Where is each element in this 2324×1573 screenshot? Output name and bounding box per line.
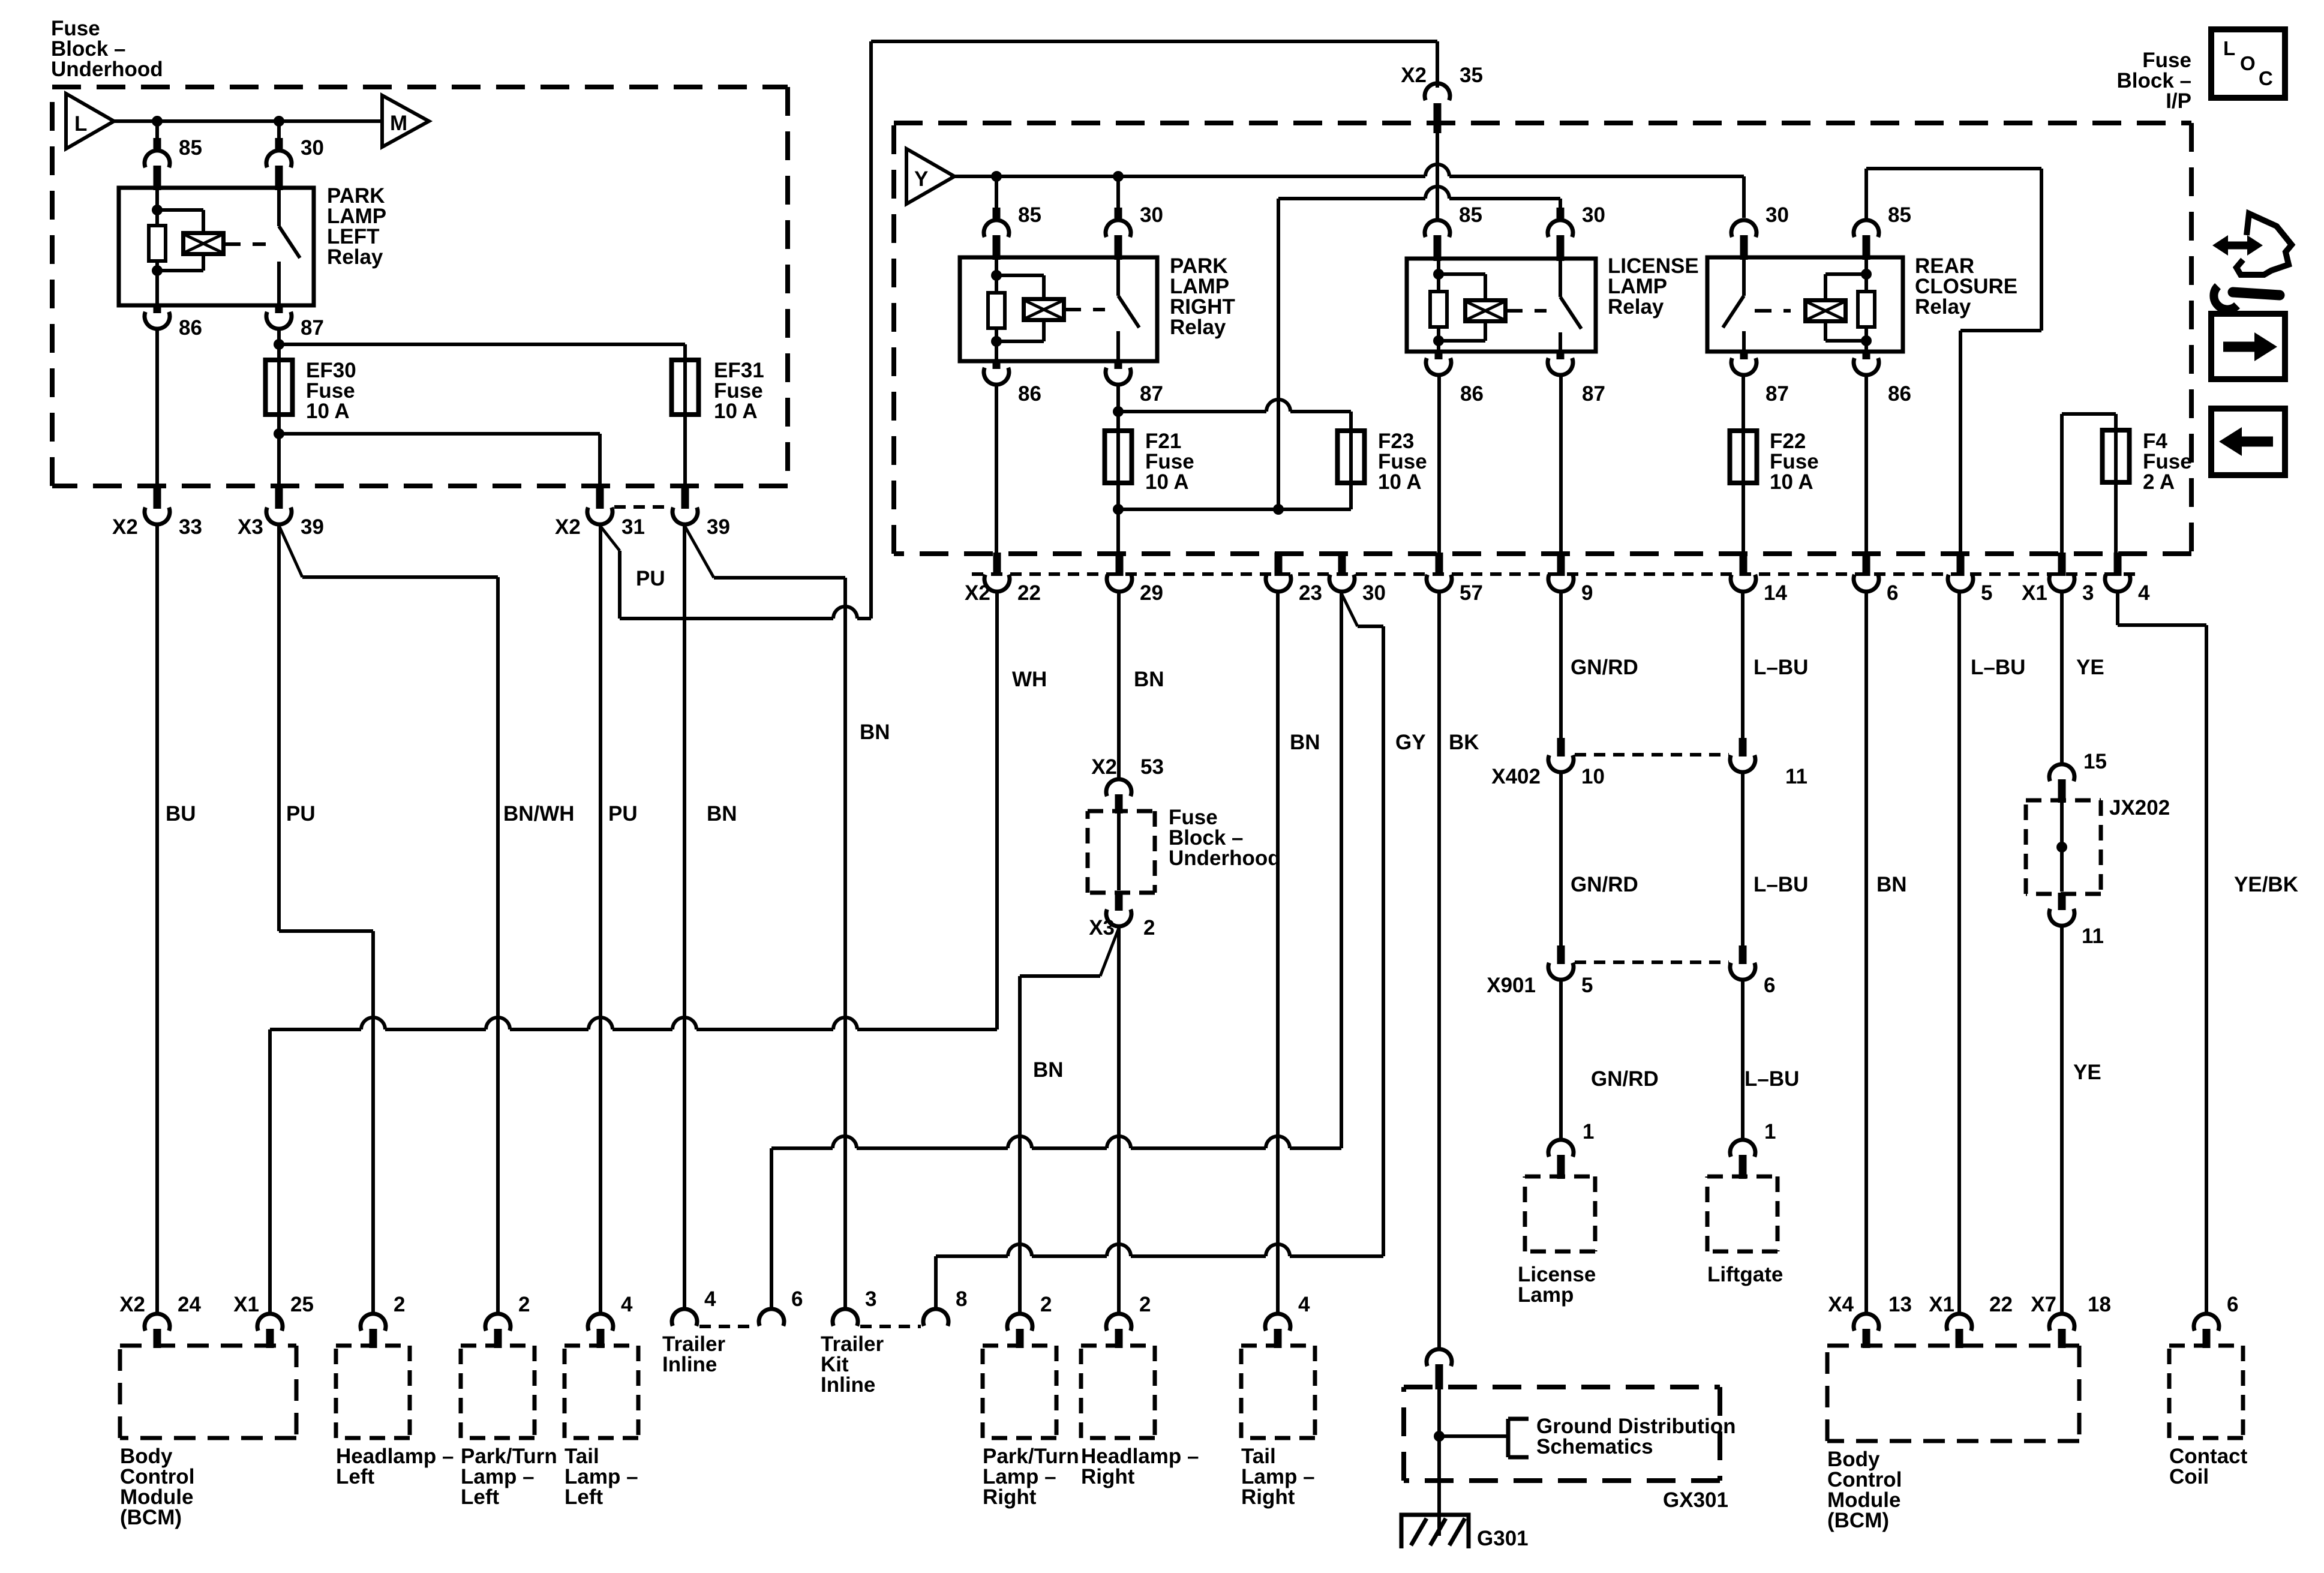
svg-text:YE: YE [2076, 656, 2104, 679]
coil (park lamp right relay) [1024, 299, 1064, 320]
wire inside ground box [1434, 1389, 1445, 1478]
pin 30 connector (park lamp right) [1106, 208, 1131, 260]
pin 30 connector (rear closure) [1731, 203, 1789, 260]
pin 85 connector (rear closure) [1854, 203, 1911, 260]
Y bus wire [950, 164, 1744, 182]
junction block JX202 box [2026, 800, 2101, 894]
label PU 2 [608, 802, 638, 825]
pin 86 connector (license) [1426, 350, 1484, 406]
connector 11 (JX202) [2049, 893, 2104, 948]
svg-text:Right: Right [983, 1485, 1037, 1509]
svg-text:18: 18 [2088, 1293, 2111, 1316]
wire BN branch 39 to trailer kit 3 [684, 526, 845, 1309]
wire L-BU 14 down [1741, 592, 1744, 738]
trailer kit inline label [821, 1332, 884, 1397]
park lamp right relay box [960, 257, 1157, 361]
pin 30 label right [1140, 203, 1163, 227]
X901 dashed link [1575, 960, 1729, 964]
svg-text:Relay: Relay [1608, 295, 1664, 319]
headlamp right label [1081, 1445, 1199, 1488]
wire BK 57 down to ground [1437, 592, 1441, 1349]
svg-text:X7: X7 [2031, 1293, 2056, 1316]
svg-text:BN: BN [1033, 1058, 1064, 1082]
svg-text:86: 86 [1018, 382, 1041, 406]
connector X402-11 [1730, 738, 1807, 788]
off-page connector triangle L [66, 94, 114, 149]
connector X2-33 [112, 485, 202, 539]
label BN 29 [1134, 668, 1164, 691]
svg-text:Schematics: Schematics [1536, 1435, 1653, 1458]
svg-text:24: 24 [178, 1293, 201, 1316]
svg-text:GN/RD: GN/RD [1571, 873, 1638, 896]
wire pin86 to X2-33 [155, 329, 159, 487]
wire BN 29 down [1117, 592, 1121, 779]
svg-text:6: 6 [791, 1287, 803, 1311]
connector X2-31 [555, 485, 645, 539]
svg-text:Inline: Inline [821, 1373, 875, 1397]
park lamp left relay box [119, 188, 314, 305]
connector X901-6 [1730, 945, 1775, 997]
relay coil feed wire + nodes (park lamp left) [152, 188, 203, 305]
svg-text:X2: X2 [1401, 64, 1427, 87]
pin 30 label [301, 136, 324, 160]
relay name PARK LAMP LEFT [327, 184, 386, 269]
wire F23 riser to bus B [1277, 199, 1280, 509]
wire 85 right drop [995, 176, 998, 213]
svg-text:I/P: I/P [2166, 89, 2191, 113]
svg-text:BN: BN [1290, 731, 1320, 754]
connector 4 (I/P row) [2105, 553, 2150, 605]
svg-text:G301: G301 [1477, 1527, 1529, 1550]
pin 86 connector (park lamp right) [984, 360, 1041, 406]
wire X2-35 into block [1436, 133, 1439, 219]
wire F21 bottom bus [1113, 483, 1351, 555]
svg-text:35: 35 [1460, 64, 1483, 87]
connector 15 (JX202) [2049, 750, 2107, 803]
svg-text:GX301: GX301 [1663, 1488, 1728, 1512]
relay name LICENSE LAMP [1608, 254, 1699, 319]
svg-text:C: C [2259, 67, 2273, 89]
svg-text:2: 2 [518, 1293, 530, 1316]
svg-text:1: 1 [1583, 1120, 1594, 1143]
fuse F4 label [2143, 430, 2192, 494]
svg-text:87: 87 [1582, 382, 1605, 406]
headlamp left label [336, 1445, 454, 1488]
label PU [286, 802, 316, 825]
svg-text:Underhood: Underhood [1169, 846, 1281, 870]
wire pin87 to EF30 [274, 329, 284, 360]
pin 87 connector (rear closure) [1731, 350, 1789, 406]
svg-text:JX202: JX202 [2109, 796, 2170, 819]
svg-text:30: 30 [1362, 581, 1386, 605]
rear closure relay box [1707, 257, 1903, 352]
label L-BU upper [1753, 656, 1808, 679]
svg-text:22: 22 [1989, 1293, 2013, 1316]
svg-text:YE: YE [2073, 1061, 2101, 1084]
resistor (rear closure relay) [1858, 292, 1875, 327]
svg-text:Right: Right [1081, 1465, 1135, 1488]
wire 87-node to EF31 [279, 344, 685, 360]
svg-text:85: 85 [1888, 203, 1911, 227]
legend box arrow right [2211, 314, 2285, 379]
svg-text:39: 39 [707, 515, 730, 539]
wire L to M bus [114, 119, 382, 123]
svg-text:BN: BN [1876, 873, 1907, 896]
pin 85 label right [1018, 203, 1041, 227]
service icon double arrow [2212, 235, 2263, 256]
relay coil feed (rear closure) [1825, 257, 1872, 352]
svg-text:Underhood: Underhood [51, 58, 163, 81]
svg-text:4: 4 [1298, 1293, 1310, 1316]
svg-text:22: 22 [1017, 581, 1041, 605]
svg-text:GN/RD: GN/RD [1571, 656, 1638, 679]
svg-text:Left: Left [565, 1485, 603, 1509]
connector X402-10 [1491, 738, 1605, 788]
wire Y bus to rear closure 30 [1742, 176, 1746, 218]
svg-text:15: 15 [2083, 750, 2107, 773]
relay coil feed (license) [1433, 259, 1485, 352]
switch (park lamp right relay) [1118, 257, 1139, 361]
switch (park lamp left relay) [279, 188, 300, 305]
connector 2 (headlamp left) [361, 1293, 405, 1348]
coil-switch dashed link (park lamp left) [224, 242, 266, 246]
wire rear 87 to F22 [1742, 376, 1745, 431]
svg-text:2: 2 [1040, 1293, 1052, 1316]
svg-text:Liftgate: Liftgate [1707, 1263, 1783, 1286]
coil-switch dashed link (license) [1506, 309, 1547, 313]
label BN trailer kit [860, 721, 890, 744]
wire X3-2 branch to park/turn right [1020, 928, 1119, 1313]
svg-text:BN/WH: BN/WH [503, 802, 575, 825]
svg-text:3: 3 [865, 1287, 876, 1311]
connector 9 (I/P row) [1548, 553, 1593, 605]
svg-text:X901: X901 [1487, 974, 1536, 997]
pin 87 connector (license) [1548, 350, 1605, 406]
svg-text:PU: PU [286, 802, 316, 825]
pin 86 connector (rear closure) [1854, 350, 1911, 406]
svg-text:3: 3 [2082, 581, 2094, 605]
connector X1-22 (BCM right) [1929, 1293, 2013, 1348]
svg-text:X2: X2 [112, 515, 138, 539]
label GN/RD upper [1571, 656, 1638, 679]
fuse block - I/P label [2117, 49, 2192, 113]
wire GN/RD 9 down [1559, 592, 1563, 738]
legend box arrow left [2211, 409, 2285, 475]
connector 3 (trailer kit) [833, 1287, 876, 1326]
wire 87 right to F21 [1113, 385, 1124, 431]
trailer inline dashed link [699, 1325, 757, 1328]
connector X1-3 (I/P row) [2022, 553, 2094, 605]
contact coil box [2169, 1346, 2243, 1438]
wire PU branch X2-31 to X2-35 feed [600, 41, 1437, 619]
svg-text:X1: X1 [1929, 1293, 1954, 1316]
label BN trailer [707, 802, 737, 825]
liftgate box [1707, 1176, 1777, 1251]
park/turn lamp left label [461, 1445, 557, 1509]
svg-text:X1: X1 [2022, 581, 2047, 605]
wire BN 39 down to trailer inline 4 [683, 525, 686, 1309]
connector X2-53 [1091, 755, 1164, 813]
wire 86 right to conn 22 [995, 385, 998, 555]
connector X3-2 [1089, 891, 1155, 939]
ground distribution dashed box [1404, 1387, 1720, 1481]
connector 23 (I/P row) [1266, 553, 1322, 605]
svg-text:39: 39 [301, 515, 324, 539]
svg-text:X2: X2 [119, 1293, 145, 1316]
wire PU X2-31 down [599, 525, 602, 1314]
svg-text:86: 86 [1888, 382, 1911, 406]
connector 2 (headlamp right) [1106, 1293, 1151, 1348]
LOC legend box [2211, 29, 2285, 98]
label L-BU mid [1753, 873, 1808, 896]
pin 87 connector (park lamp right) [1106, 360, 1163, 406]
svg-text:85: 85 [1459, 203, 1482, 227]
svg-text:X402: X402 [1491, 765, 1541, 788]
svg-text:2 A: 2 A [2143, 470, 2175, 494]
svg-text:10: 10 [1581, 765, 1605, 788]
label BN/WH [503, 802, 575, 825]
body control module right label [1827, 1448, 1902, 1532]
svg-text:O: O [2240, 52, 2256, 74]
wire L-BU 6 down [1741, 980, 1744, 1139]
svg-text:2: 2 [1143, 916, 1155, 939]
wire BU X2-33 to BCM X2-24 [155, 525, 159, 1314]
svg-text:10 A: 10 A [1378, 470, 1422, 494]
svg-text:31: 31 [621, 515, 645, 539]
park/turn lamp right box [983, 1346, 1056, 1438]
fuse F21 [1105, 430, 1132, 484]
wire license 86 to conn 57 [1437, 376, 1441, 555]
svg-text:14: 14 [1764, 581, 1787, 605]
label BN 23 [1290, 731, 1320, 754]
label GY [1395, 731, 1426, 754]
service icon wrench [2214, 286, 2280, 310]
svg-text:11: 11 [2082, 924, 2104, 948]
svg-text:10 A: 10 A [714, 400, 758, 423]
off-page connector triangle M [382, 95, 429, 147]
tail lamp left box [565, 1346, 638, 1438]
svg-text:Right: Right [1241, 1485, 1295, 1509]
body control module right box [1827, 1346, 2079, 1441]
svg-text:L–BU: L–BU [1744, 1067, 1799, 1091]
wire PU X3-39 down [279, 525, 373, 1314]
wire YE 11 down to BCM X7-18 [2060, 926, 2064, 1314]
svg-text:L: L [74, 112, 87, 136]
wire EF30 to X3-39 [274, 415, 284, 487]
switch (rear closure relay) [1723, 257, 1744, 352]
connector X7-18 (BCM right) [2031, 1293, 2111, 1348]
connector 2 (park/turn left) [485, 1293, 530, 1348]
connector X1-25 (BCM left) [233, 1293, 314, 1348]
coil (park lamp left relay) [184, 233, 224, 254]
pin 87 connector (park lamp left) [266, 304, 324, 340]
svg-text:(BCM): (BCM) [1827, 1509, 1889, 1532]
fuse block - underhood label [51, 17, 163, 81]
ground distribution pointer bracket [1439, 1419, 1529, 1457]
connector X901-5 [1487, 945, 1593, 997]
svg-text:30: 30 [301, 136, 324, 160]
svg-text:BN: BN [860, 721, 890, 744]
svg-text:Relay: Relay [1915, 295, 1971, 319]
fuse EF30 label [306, 359, 356, 423]
svg-text:6: 6 [1764, 974, 1775, 997]
label YE upper [2076, 656, 2104, 679]
connector 8 (trailer kit) [923, 1287, 967, 1326]
fuse F4 [2103, 429, 2130, 484]
connector X2-22 (I/P row) [965, 553, 1041, 605]
wire WH 22 down to bus1 [995, 592, 999, 1029]
fuse F22 [1730, 430, 1757, 484]
connector 29 (I/P row) [1107, 553, 1163, 605]
tail lamp right label [1241, 1445, 1315, 1509]
headlamp left box [336, 1346, 410, 1438]
svg-text:PU: PU [608, 802, 638, 825]
wire conn3 riser to F4 [2062, 414, 2116, 555]
relay name REAR CLOSURE [1915, 254, 2017, 319]
svg-text:YE/BK: YE/BK [2234, 873, 2298, 896]
pin 85 label [179, 136, 202, 160]
svg-text:87: 87 [1765, 382, 1789, 406]
svg-text:86: 86 [1460, 382, 1484, 406]
service icon panel outline [2236, 214, 2292, 275]
wire 30 right drop [1116, 176, 1120, 213]
svg-text:9: 9 [1581, 581, 1593, 605]
connector 6 (contact coil) [2194, 1293, 2238, 1348]
body control module left label [120, 1445, 194, 1529]
trailer inline bus wire [771, 1136, 1341, 1308]
svg-text:Left: Left [461, 1485, 500, 1509]
fuse F22 label [1770, 430, 1819, 494]
pin 85 connector (park lamp left) [145, 138, 170, 190]
connector X3-39 [238, 485, 324, 539]
label WH [1012, 668, 1047, 691]
fuse EF31 label [714, 359, 764, 423]
svg-text:GY: GY [1395, 731, 1426, 754]
wire pin30 left drop [277, 121, 281, 143]
headlamp right box [1081, 1346, 1155, 1438]
fuse block underhood mini dashed box [1088, 811, 1155, 893]
label BN right [1876, 873, 1907, 896]
svg-text:L–BU: L–BU [1971, 656, 2025, 679]
connector 6 (I/P row) [1854, 553, 1898, 605]
svg-text:X3: X3 [1089, 916, 1115, 939]
svg-text:10 A: 10 A [306, 400, 350, 423]
ground distribution label [1536, 1415, 1736, 1458]
fuse F23 label [1378, 430, 1427, 494]
wire rear 86 to conn 6 [1864, 376, 1868, 555]
pin 85 connector (license) [1425, 203, 1482, 261]
connector 14 (I/P row) [1731, 553, 1787, 605]
coil-switch dashed link (park right) [1064, 308, 1105, 311]
resistor (park lamp left relay) [149, 226, 166, 261]
resistor (license relay) [1430, 292, 1447, 327]
connector 30 (I/P row) [1329, 553, 1386, 605]
svg-text:X2: X2 [1091, 755, 1117, 779]
wire F4 to conn 4 [2114, 482, 2118, 555]
svg-text:L–BU: L–BU [1753, 873, 1808, 896]
fuse block - underhood dashed box [52, 87, 788, 486]
svg-text:4: 4 [621, 1293, 633, 1316]
fuse EF31 [672, 359, 699, 416]
fuse F23 [1338, 430, 1365, 484]
connector X2-24 (BCM left) [119, 1293, 201, 1348]
connector 4 (tail lamp right) [1265, 1293, 1310, 1348]
fine dashed connector row I/P [972, 572, 2136, 576]
svg-text:PU: PU [636, 567, 665, 590]
park/turn lamp left box [461, 1346, 535, 1438]
wire BN/WH branch from X3-39 [279, 526, 498, 1314]
trailer kit bus wire [936, 1244, 1383, 1308]
wire 87-node to F23 [1118, 400, 1351, 431]
connector X4-13 (BCM right) [1828, 1293, 1912, 1348]
license lamp box [1525, 1176, 1595, 1251]
wire GN/RD 10 down [1559, 773, 1563, 945]
svg-text:X3: X3 [238, 515, 263, 539]
svg-text:4: 4 [704, 1287, 716, 1311]
svg-text:8: 8 [956, 1287, 967, 1311]
wire EF31 to 39 [683, 415, 687, 487]
junction node at x465 on L bus [274, 116, 284, 127]
body control module left box [120, 1346, 296, 1438]
wire BN 23 down to tail right [1276, 592, 1280, 1313]
svg-text:6: 6 [2227, 1293, 2238, 1316]
svg-text:Relay: Relay [1170, 316, 1226, 339]
bus1 wire to BCM X1-25 [270, 1017, 997, 1314]
svg-text:X2: X2 [965, 581, 990, 605]
svg-text:WH: WH [1012, 668, 1047, 691]
svg-text:Lamp: Lamp [1518, 1283, 1574, 1307]
connector 4 (trailer inline) [672, 1287, 716, 1326]
wire 4 jog to YE/BK [2118, 592, 2206, 1314]
svg-text:X4: X4 [1828, 1293, 1854, 1316]
wire EF30-node to X2-31 [279, 434, 600, 487]
svg-text:4: 4 [2138, 581, 2150, 605]
connector X2-35 [1401, 64, 1483, 133]
trailer inline label [662, 1332, 725, 1376]
trailer kit dashed link [860, 1325, 921, 1328]
connector 1 (license lamp) [1548, 1120, 1594, 1179]
fuse block - I/P dashed box [894, 123, 2191, 554]
svg-text:L–BU: L–BU [1753, 656, 1808, 679]
svg-text:(BCM): (BCM) [120, 1506, 182, 1529]
svg-text:87: 87 [1140, 382, 1163, 406]
wire L-BU 5 down to BCM X1-22 [1957, 592, 1961, 1314]
relay name PARK LAMP RIGHT [1170, 254, 1235, 339]
pin 30 connector (park lamp left) [266, 138, 292, 190]
switch (license relay) [1560, 259, 1581, 352]
label YE/BK [2234, 873, 2298, 896]
pin 86 connector (park lamp left) [145, 304, 202, 340]
svg-text:X2: X2 [555, 515, 581, 539]
bus B wire to license 30 [1278, 187, 1560, 218]
connector 39 (EF31 out) [672, 485, 730, 539]
connector to ground block [1427, 1349, 1452, 1389]
liftgate label [1707, 1263, 1783, 1286]
coil (license relay) [1466, 301, 1506, 322]
wire X3-2 to headlamp right [1117, 927, 1121, 1313]
svg-text:5: 5 [1981, 581, 1992, 605]
svg-text:23: 23 [1299, 581, 1322, 605]
contact coil label [2169, 1445, 2248, 1488]
svg-text:30: 30 [1140, 203, 1163, 227]
wire license 87 to conn 9 [1559, 376, 1563, 555]
svg-text:Relay: Relay [327, 245, 383, 269]
label BK [1449, 731, 1479, 754]
wire GN/RD 5 down [1559, 980, 1563, 1139]
wire BN 6 down to BCM X4-13 [1864, 592, 1868, 1314]
ground symbol G301 [1401, 1515, 1529, 1550]
connector 5 (I/P row) [1948, 553, 1992, 605]
